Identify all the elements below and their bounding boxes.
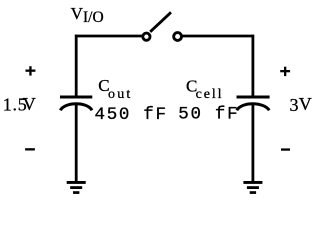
svg-text:I/O: I/O	[83, 9, 104, 26]
svg-text:V: V	[23, 94, 36, 114]
svg-text:out: out	[108, 87, 133, 102]
svg-text:50 fF: 50 fF	[178, 105, 239, 125]
svg-text:450 fF: 450 fF	[95, 105, 168, 125]
svg-text:V: V	[71, 4, 84, 23]
svg-text:cell: cell	[196, 87, 224, 102]
svg-text:V: V	[299, 94, 312, 114]
svg-text:3: 3	[290, 95, 299, 115]
